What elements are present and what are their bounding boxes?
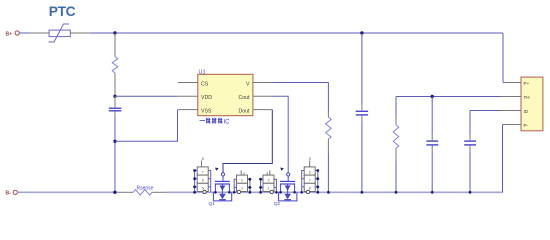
resistor Rsense: [118, 186, 167, 196]
svg-text:2: 2: [241, 179, 243, 183]
junction rail at Q2 stubs: [279, 191, 282, 194]
svg-text:2: 2: [268, 179, 270, 183]
op-amp U1 protection IC: [198, 70, 253, 116]
junction rail at C1 branch: [113, 191, 116, 194]
svg-text:1: 1: [268, 187, 270, 191]
svg-text:Rsense: Rsense: [137, 186, 154, 192]
pin PTC left: [29, 32, 49, 34]
junction rail at R2: [327, 191, 330, 194]
junction rail at C2: [361, 191, 364, 194]
junction rail at S1 bus: [193, 191, 196, 194]
svg-text:8: 8: [202, 157, 204, 161]
port B+: [6, 31, 20, 38]
transistor Q1 package pin stack S2: [234, 170, 251, 193]
svg-text:6: 6: [309, 170, 311, 174]
svg-text:6: 6: [202, 179, 204, 183]
junction rail at S4 bus: [316, 191, 319, 194]
junction rail at C4: [469, 191, 472, 194]
pin CS: [178, 82, 198, 84]
pin Cout: [253, 95, 272, 97]
pin P-: [503, 124, 522, 126]
junction VSS node: [113, 140, 116, 143]
capacitor C3: [426, 97, 438, 193]
svg-text:Dout: Dout: [239, 108, 251, 114]
svg-text:1: 1: [241, 187, 243, 191]
svg-text:5: 5: [309, 157, 311, 161]
pin VDD: [178, 95, 198, 97]
pin TH: [501, 96, 521, 98]
wire top rail B+ net: [90, 32, 503, 34]
wire TH net: [396, 96, 501, 98]
svg-text:PTC: PTC: [49, 4, 76, 19]
svg-text:CS: CS: [201, 81, 209, 87]
svg-text:Q1: Q1: [209, 201, 216, 207]
connector J1: [521, 77, 543, 131]
wire P- vertical: [502, 125, 504, 193]
wire B- rail left: [17, 191, 118, 193]
svg-text:ID: ID: [524, 109, 529, 114]
svg-text:B-: B-: [6, 191, 12, 197]
svg-text:Cout: Cout: [239, 95, 251, 101]
svg-text:VSS: VSS: [201, 108, 212, 114]
junction rail at Q1 stubs: [214, 191, 217, 194]
svg-text:V: V: [246, 81, 250, 87]
junction VDD node: [113, 95, 116, 98]
transistor Q1 package pin stack S1: [193, 157, 210, 194]
transistor Q1: [209, 168, 232, 208]
svg-text:7: 7: [309, 179, 311, 183]
pin ID: [501, 110, 521, 112]
port B-: [6, 190, 18, 196]
svg-text:TH: TH: [524, 95, 530, 100]
wire Dout net to Q1 gate: [223, 110, 272, 173]
pin V: [253, 82, 272, 84]
transistor Q2: [274, 168, 297, 208]
junction rail at S2 bus: [249, 191, 252, 194]
svg-text:B+: B+: [6, 32, 13, 38]
wire B+ to PTC: [19, 32, 29, 34]
junction rail at S3 bus: [259, 191, 262, 194]
svg-text:VDD: VDD: [201, 95, 212, 101]
svg-text:P-: P-: [524, 123, 529, 128]
wire C1 to B- rail: [114, 118, 116, 193]
capacitor C1: [109, 96, 122, 117]
label first-level protection IC (CJK): [200, 118, 223, 124]
pin VSS: [178, 109, 198, 111]
svg-text:IC: IC: [224, 120, 231, 126]
capacitor C4: [464, 111, 476, 193]
wire ID net: [470, 110, 501, 112]
wire R2 to rail: [327, 153, 329, 192]
capacitor C2: [356, 33, 368, 192]
wire V net: [272, 83, 328, 112]
pin P+: [503, 82, 521, 84]
svg-text:P+: P+: [524, 81, 530, 86]
wire VSS: [115, 110, 178, 142]
wire Cout net to Q2 gate: [272, 96, 288, 173]
junction top rail at C2: [360, 31, 363, 34]
svg-text:7: 7: [202, 170, 204, 174]
resistor R1: [112, 33, 118, 96]
junction TH at C3: [431, 95, 434, 98]
thermistor PTC: [49, 4, 76, 42]
junction rail at R3: [395, 191, 398, 194]
transistor Q2 package pin stack S4: [302, 157, 319, 194]
junction top rail at R1: [113, 31, 116, 34]
resistor R3: [393, 97, 399, 193]
wire B- rail right: [167, 191, 503, 193]
resistor R2: [326, 111, 332, 153]
wire P+ vertical: [502, 33, 504, 83]
svg-text:Q2: Q2: [274, 201, 281, 207]
pin PTC right: [70, 32, 90, 34]
pin Dout: [253, 109, 272, 111]
wire VDD: [115, 95, 178, 97]
junction rail at C3: [431, 191, 434, 194]
transistor Q2 package pin stack S3: [259, 170, 276, 193]
